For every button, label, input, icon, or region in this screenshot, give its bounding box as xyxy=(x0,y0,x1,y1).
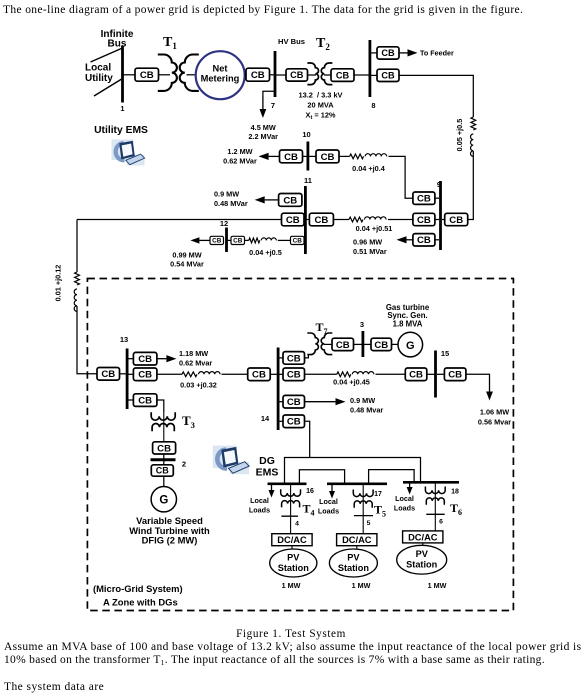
wire line 8-9 upper corner xyxy=(399,75,473,117)
svg-text:Local: Local xyxy=(85,63,111,74)
svg-text:0.05 +j0.5: 0.05 +j0.5 xyxy=(455,119,464,152)
svg-text:Bus: Bus xyxy=(108,39,127,50)
wire bus 8 to top CB xyxy=(371,52,377,54)
svg-text:0.9 MW: 0.9 MW xyxy=(214,190,239,199)
svg-text:DC/AC: DC/AC xyxy=(342,535,372,545)
svg-text:0.01 +j0.12: 0.01 +j0.12 xyxy=(54,265,63,302)
svg-text:CB: CB xyxy=(409,370,423,381)
wire CB to bus 9 (top) xyxy=(435,197,439,199)
svg-text:Metering: Metering xyxy=(201,74,240,84)
circuit breaker CB (bus 15 load) xyxy=(444,368,466,381)
caption Figure 1 xyxy=(236,628,346,640)
transformer T5 label xyxy=(374,503,386,519)
svg-text:CB: CB xyxy=(336,340,350,351)
arrow load bus 15 xyxy=(486,378,493,401)
line impedance label 0.04+j0.5 xyxy=(249,248,282,257)
wire DG outer distribution xyxy=(285,458,421,483)
wire CB to bus 10 xyxy=(303,155,308,157)
transformer T2 ratings label xyxy=(299,91,343,122)
svg-text:Xt = 12%: Xt = 12% xyxy=(306,111,336,122)
wire CB to line impedance xyxy=(339,155,350,157)
load label 0.9 MW 0.48 MVar xyxy=(214,190,248,209)
svg-text:8: 8 xyxy=(371,101,375,110)
wire line 12-11 to CB xyxy=(278,239,291,241)
wire CB to line impedance xyxy=(245,239,249,241)
svg-text:0.04 +j0.45: 0.04 +j0.45 xyxy=(333,378,370,387)
circuit breaker CB (bus 3 to gas turbine) xyxy=(371,338,392,351)
wire DC/AC to PV station 1 xyxy=(291,546,293,549)
wire CB to load arrow xyxy=(466,374,490,378)
wire T3 center xyxy=(163,412,165,441)
wire bus1 to CB xyxy=(124,74,136,76)
label local loads (bus 16) xyxy=(249,496,270,514)
arrow local loads bus 18 xyxy=(407,484,413,495)
svg-text:DFIG (2 MW): DFIG (2 MW) xyxy=(142,535,198,546)
wire CB to bus 2 xyxy=(163,454,165,459)
svg-text:2.2 MVar: 2.2 MVar xyxy=(248,132,278,141)
circuit breaker CB (bus 14 to DG feeder) xyxy=(283,415,305,428)
label Utility EMS xyxy=(94,125,148,136)
circuit breaker CB (bus 13 to line 13-14) xyxy=(133,368,157,381)
svg-text:CB: CB xyxy=(284,152,298,163)
wire bus 8 to second CB xyxy=(371,74,377,76)
wire bus 14 row4 stub xyxy=(280,420,284,422)
bus 8 number label xyxy=(371,101,375,110)
PV station 1 xyxy=(270,549,317,577)
bus 16 number label xyxy=(306,488,314,495)
wire line 14-15 to CB xyxy=(376,373,406,375)
wire bus 14 row3 stub xyxy=(280,401,284,403)
transformer T2 windings xyxy=(307,63,332,85)
node 5 number label xyxy=(367,520,371,527)
svg-text:CB: CB xyxy=(417,194,431,205)
circuit breaker CB (bus 9 load) xyxy=(413,234,435,247)
circuit breaker CB (bus 8 feeder) xyxy=(377,47,399,59)
circuit breaker CB (bus 2 to wind generator) xyxy=(151,465,173,476)
bus 18 number label xyxy=(451,489,459,496)
svg-text:CB: CB xyxy=(287,397,301,408)
wire CB to line impedance xyxy=(157,373,182,375)
svg-text:0.04 +j0.5: 0.04 +j0.5 xyxy=(249,248,282,257)
svg-text:CB: CB xyxy=(252,370,266,381)
load label 0.96 MW 0.51 MVar xyxy=(353,237,387,256)
wire bus 9 to right CB xyxy=(442,219,445,221)
wire DC/AC to PV station 3 xyxy=(422,543,424,546)
node 5 bar xyxy=(354,515,373,517)
svg-text:2: 2 xyxy=(182,460,186,469)
svg-text:CB: CB xyxy=(314,215,328,226)
svg-text:7: 7 xyxy=(271,101,275,110)
line impedance 0.04+j0.5 xyxy=(249,238,276,243)
wind turbine generator G xyxy=(151,487,176,512)
svg-text:CB: CB xyxy=(156,466,169,476)
wire line 13-14 to CB xyxy=(222,373,248,375)
circuit breaker CB (bus 12 to line 12-11) xyxy=(231,236,245,244)
wire bus 15 to CB xyxy=(437,373,444,375)
node 6 bar xyxy=(426,513,444,515)
arrow load bus 11 xyxy=(255,196,279,203)
arrow local loads bus 17 xyxy=(329,485,335,499)
svg-text:Loads: Loads xyxy=(318,506,339,515)
PV station 2 xyxy=(329,549,377,577)
circuit breaker CB (bus 10 load) xyxy=(280,150,303,163)
gas turbine generator G xyxy=(398,332,423,357)
svg-text:CB: CB xyxy=(381,48,395,58)
bus 1 number label xyxy=(120,104,124,113)
wire CB to bus 3 xyxy=(354,343,363,345)
bus 1 xyxy=(121,46,124,103)
micro-grid zone dashed border xyxy=(87,279,513,611)
label local loads (bus 18) xyxy=(394,494,415,512)
svg-text:The system data are: The system data are xyxy=(4,681,104,693)
wire CB to wind generator xyxy=(163,476,165,486)
wire bus 13 row1 stub xyxy=(129,358,134,360)
arrow load bus 12 xyxy=(190,237,210,243)
arrow local loads bus 16 xyxy=(269,485,275,498)
svg-text:CB: CB xyxy=(283,195,297,206)
PV station 1 rating label xyxy=(282,581,301,590)
svg-text:T5: T5 xyxy=(374,503,386,519)
wire CB to T7 xyxy=(305,354,309,358)
line impedance 0.01+j0.12 xyxy=(74,272,79,311)
bus 10 number label xyxy=(302,130,310,139)
svg-text:Station: Station xyxy=(278,563,310,573)
DC/AC converter 1 xyxy=(272,534,312,546)
svg-text:CB: CB xyxy=(140,70,154,81)
svg-text:10: 10 xyxy=(302,130,310,139)
arrow load bus 14 xyxy=(305,398,346,405)
svg-text:17: 17 xyxy=(374,491,382,498)
transformer T7 windings xyxy=(307,333,332,355)
svg-text:DC/AC: DC/AC xyxy=(408,532,438,542)
svg-text:15: 15 xyxy=(441,349,449,358)
label Infinite Bus xyxy=(101,29,134,40)
svg-text:(Micro-Grid System): (Micro-Grid System) xyxy=(93,583,183,594)
svg-text:The one-line diagram of a powe: The one-line diagram of a power grid is … xyxy=(3,4,523,16)
svg-text:CB: CB xyxy=(293,238,303,245)
line impedance 0.04+j0.4 xyxy=(350,154,387,159)
circuit breaker CB (bus 7 side of T2) xyxy=(286,69,308,81)
transformer T4 windings xyxy=(281,489,301,507)
circuit breaker CB (bus 13 to T3) xyxy=(133,394,157,407)
load label 0.99 MW 0.54 MVar xyxy=(170,250,204,268)
svg-text:5: 5 xyxy=(367,520,371,527)
svg-text:PV: PV xyxy=(416,549,429,559)
svg-text:CB: CB xyxy=(233,238,243,245)
svg-text:CB: CB xyxy=(212,238,222,245)
transformer T1 windings xyxy=(158,55,199,91)
svg-text:HV Bus: HV Bus xyxy=(278,37,305,46)
circuit breaker CB (bus 9 to line 11-9) xyxy=(413,213,435,226)
wire circle to CB xyxy=(245,74,246,76)
wire micro-grid feeder vertical xyxy=(76,220,78,273)
line impedance label 0.04+j0.51 xyxy=(356,224,393,233)
svg-text:CB: CB xyxy=(138,396,152,407)
svg-text:3: 3 xyxy=(360,320,364,329)
svg-text:G: G xyxy=(159,495,168,507)
svg-text:PV: PV xyxy=(287,553,300,563)
wire bus 12 to CB xyxy=(228,239,232,241)
DC/AC converter 2 xyxy=(337,534,377,546)
PV station 3 rating label xyxy=(428,581,447,590)
wire bus 14 row1 stub xyxy=(280,357,284,359)
svg-text:T3: T3 xyxy=(182,413,195,430)
svg-text:CB: CB xyxy=(381,71,395,81)
wire bus 13 row2 stub xyxy=(129,373,134,375)
load label 4.5 MW 2.2 MVar xyxy=(248,123,278,141)
svg-text:10% based on the transformer T: 10% based on the transformer T1. The inp… xyxy=(4,654,545,667)
circuit breaker CB (bus 1 side of T1) xyxy=(135,68,159,81)
arrow load bus 7 xyxy=(260,96,267,118)
svg-text:0.56 Mvar: 0.56 Mvar xyxy=(478,418,511,427)
transformer T1 label xyxy=(163,35,177,51)
bus 12 number label xyxy=(220,219,228,228)
bus 12 xyxy=(225,228,228,253)
transformer T6 label xyxy=(450,501,462,517)
line impedance 0.05+j0.5 xyxy=(471,117,476,156)
net metering circle xyxy=(196,51,245,99)
wire line 8-9 lower segment xyxy=(468,151,473,220)
svg-text:CB: CB xyxy=(449,215,463,226)
circuit breaker CB (net metering to HV bus) xyxy=(246,68,270,81)
bus 8 xyxy=(368,40,371,97)
svg-text:0.48 Mvar: 0.48 Mvar xyxy=(350,405,383,414)
svg-text:Loads: Loads xyxy=(249,505,270,514)
wire CB to gas turbine generator xyxy=(392,343,399,345)
line impedance label 0.05+j0.5 xyxy=(455,119,464,152)
bus 3 xyxy=(361,331,364,357)
transformer T2 label xyxy=(316,36,330,52)
line impedance label 0.01+j0.12 xyxy=(54,265,63,302)
svg-text:1: 1 xyxy=(120,104,124,113)
arrow load bus 13 xyxy=(157,355,176,362)
svg-text:0.48 MVar: 0.48 MVar xyxy=(214,199,248,208)
transformer T6 windings xyxy=(425,487,445,505)
bus 15 xyxy=(434,351,437,398)
svg-text:1.06 MW: 1.06 MW xyxy=(480,408,509,417)
wire node 4 to DC/AC xyxy=(290,516,292,534)
transformer T7 label xyxy=(316,320,328,336)
svg-text:Local: Local xyxy=(395,494,414,503)
svg-text:CB: CB xyxy=(290,70,304,80)
bus 10 xyxy=(306,142,309,171)
wire micro-grid feeder lower xyxy=(77,306,97,374)
circuit breaker CB (bus 11 to line 11-9) xyxy=(309,213,333,226)
circuit breaker CB (bus 14 to T7) xyxy=(283,352,305,365)
svg-text:1.18 MW: 1.18 MW xyxy=(179,349,208,358)
svg-text:Local: Local xyxy=(319,497,338,506)
svg-text:0.03 +j0.32: 0.03 +j0.32 xyxy=(180,381,217,390)
svg-text:1 MW: 1 MW xyxy=(352,581,371,590)
svg-text:T2: T2 xyxy=(316,36,330,52)
line impedance 0.03+j0.32 xyxy=(182,372,220,377)
wire CB to bus 11 xyxy=(304,239,305,241)
wire DG inner distribution left xyxy=(299,470,344,483)
label Local Utility xyxy=(85,63,113,85)
wire CB to bus 8 xyxy=(354,74,370,76)
circuit breaker CB (T3 to bus 2) xyxy=(153,442,176,455)
svg-text:CB: CB xyxy=(448,370,462,381)
svg-text:CB: CB xyxy=(287,417,301,428)
wire CB to bus 9 (bottom) xyxy=(435,239,439,241)
circuit breaker CB (bus 11 load) xyxy=(279,194,302,207)
bus 3 number label xyxy=(360,320,364,329)
wire bus 2 to CB xyxy=(163,461,165,465)
wire CB to bus 9 (mid) xyxy=(435,219,439,221)
svg-text:A Zone with DGs: A Zone with DGs xyxy=(103,597,178,608)
svg-text:1.2 MW: 1.2 MW xyxy=(227,147,252,156)
wire bus 11 to CB right xyxy=(307,219,310,221)
svg-text:Station: Station xyxy=(406,560,438,570)
circuit breaker CB (bus 12 load) xyxy=(210,236,224,244)
svg-text:6: 6 xyxy=(439,519,443,526)
svg-text:DC/AC: DC/AC xyxy=(277,535,307,545)
label HV Bus xyxy=(278,37,305,46)
svg-text:1.8 MVA: 1.8 MVA xyxy=(393,319,423,328)
svg-text:CB: CB xyxy=(101,369,115,380)
wire T1 to net metering circle xyxy=(187,74,197,76)
svg-text:CB: CB xyxy=(251,70,265,81)
transformer T3 label xyxy=(182,413,195,430)
node 4 number label xyxy=(295,521,299,528)
wire T5 center xyxy=(362,485,364,516)
circuit breaker CB (bus 14 load) xyxy=(283,395,305,408)
utility source stroke upper xyxy=(91,48,123,62)
svg-text:Loads: Loads xyxy=(394,503,415,512)
label To Feeder xyxy=(420,49,454,58)
bus 15 number label xyxy=(441,349,449,358)
line impedance label 0.03+j0.32 xyxy=(180,381,217,390)
circuit breaker CB (bus 11 to micro-grid line) xyxy=(282,213,305,226)
bus 11 number label xyxy=(304,176,312,185)
transformer T3 windings xyxy=(151,412,175,431)
svg-text:11: 11 xyxy=(304,176,312,185)
svg-text:CB: CB xyxy=(374,340,388,351)
bus 9 number label xyxy=(437,180,441,189)
bus 16 xyxy=(268,482,307,485)
wire T2 to CB xyxy=(324,74,331,76)
utility EMS computer icon xyxy=(112,140,145,166)
bus 18 xyxy=(403,481,459,484)
label Infinite Bus line 2 xyxy=(108,39,127,50)
svg-text:CB: CB xyxy=(417,215,431,226)
utility source stroke lower xyxy=(94,79,123,97)
paragraph: assumption text line 1 xyxy=(4,641,582,653)
svg-text:13.2 / 3.3 kV: 13.2 / 3.3 kV xyxy=(299,91,343,100)
svg-text:CB: CB xyxy=(417,235,431,246)
wire CB to bus 15 xyxy=(427,373,436,375)
PV station 2 rating label xyxy=(352,581,371,590)
circuit breaker CB (bus 14 to line 14-15) xyxy=(283,368,305,381)
wire T6 center xyxy=(434,483,436,514)
wire bus 3 to CB xyxy=(364,343,371,345)
bus 17 xyxy=(327,482,387,485)
svg-text:0.62 Mvar: 0.62 Mvar xyxy=(179,358,212,367)
bus 9 xyxy=(439,181,442,250)
svg-text:13: 13 xyxy=(120,335,128,344)
node 4 bar xyxy=(281,515,298,517)
circuit breaker CB (T7 to bus 3) xyxy=(332,338,354,351)
svg-text:G: G xyxy=(406,340,415,352)
bus 2 xyxy=(151,458,176,461)
bus 13 xyxy=(126,349,129,410)
svg-text:CB: CB xyxy=(157,443,171,454)
wire DG inner distribution right xyxy=(369,470,415,483)
svg-text:CB: CB xyxy=(138,354,152,365)
line impedance label 0.04+j0.45 xyxy=(333,378,370,387)
svg-text:0.54 MVar: 0.54 MVar xyxy=(170,260,204,269)
wire node 5 to DC/AC xyxy=(362,516,364,534)
svg-text:EMS: EMS xyxy=(256,466,279,478)
svg-text:4.5 MW: 4.5 MW xyxy=(251,123,276,132)
svg-text:CB: CB xyxy=(286,215,300,226)
circuit breaker CB (line 14-15 to bus 15) xyxy=(405,368,427,381)
circuit breaker CB (bus 10 to line 10-9) xyxy=(316,150,339,163)
svg-text:CB: CB xyxy=(321,152,335,163)
line impedance 0.04+j0.45 xyxy=(337,372,374,377)
wire T7 to CB xyxy=(324,343,332,345)
wire bus 10 to CB xyxy=(309,155,316,157)
svg-text:T6: T6 xyxy=(450,501,462,517)
svg-text:T1: T1 xyxy=(163,35,177,51)
wire CB to bus 7 xyxy=(270,74,276,76)
circuit breaker CB (bus 8 to line 8-9) xyxy=(377,69,399,81)
bus 2 number label xyxy=(182,460,186,469)
svg-text:1 MW: 1 MW xyxy=(282,581,301,590)
svg-text:CB: CB xyxy=(287,353,301,364)
svg-text:20 MVA: 20 MVA xyxy=(307,101,334,110)
node 6 number label xyxy=(439,519,443,526)
svg-text:Local: Local xyxy=(250,496,269,505)
svg-text:Utility: Utility xyxy=(85,73,113,84)
svg-text:Net: Net xyxy=(213,64,228,74)
paragraph: system data text xyxy=(4,681,104,693)
svg-text:To Feeder: To Feeder xyxy=(420,49,454,58)
wire bus 7 load branch xyxy=(263,91,275,96)
svg-text:CB: CB xyxy=(336,70,350,80)
load label 0.9 MW 0.48 Mvar xyxy=(350,396,383,415)
load label 1.18 MW 0.62 Mvar xyxy=(179,349,212,368)
wire CB to T3 xyxy=(157,400,164,412)
arrow load bus 10 xyxy=(259,153,280,160)
label gas turbine sync gen xyxy=(386,303,430,328)
wire line 11-9 to CB xyxy=(388,219,413,221)
load label 1.2 MW 0.62 MVar xyxy=(223,147,257,165)
bus 11 xyxy=(304,186,307,254)
svg-text:0.04 +j0.4: 0.04 +j0.4 xyxy=(352,164,386,173)
wire CB to bus 14 xyxy=(270,373,278,375)
bus 7 (HV bus) xyxy=(274,51,277,97)
svg-text:1 MW: 1 MW xyxy=(428,581,447,590)
circuit breaker CB (bus 13 load) xyxy=(133,352,157,365)
wire bus 13 row3 stub xyxy=(129,399,134,401)
wire micro-grid feeder to CB xyxy=(77,219,282,221)
label A Zone with DGs xyxy=(103,597,178,608)
circuit breaker CB (line 13-14 to bus 14) xyxy=(248,368,271,381)
svg-text:CB: CB xyxy=(138,370,152,381)
DC/AC converter 3 xyxy=(403,531,443,543)
bus 13 number label xyxy=(120,335,128,344)
svg-text:16: 16 xyxy=(306,488,314,495)
wire CB to line impedance xyxy=(333,219,349,221)
arrow load bus 9 xyxy=(397,236,413,243)
wire T4 center xyxy=(290,485,292,516)
svg-text:0.96 MW: 0.96 MW xyxy=(353,237,382,246)
svg-text:12: 12 xyxy=(220,219,228,228)
wire DC/AC to PV station 2 xyxy=(356,546,358,549)
label variable speed wind turbine xyxy=(129,515,210,546)
wire CB to bus 13 xyxy=(120,373,128,375)
